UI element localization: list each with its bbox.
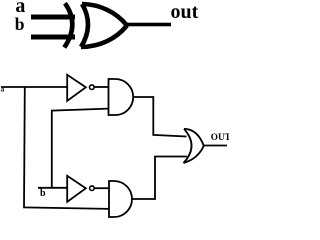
svg-text:b: b	[40, 188, 46, 199]
svg-text:b: b	[15, 14, 25, 34]
svg-text:out: out	[171, 1, 199, 23]
svg-text:a: a	[1, 85, 5, 93]
svg-text:OUT: OUT	[211, 132, 229, 142]
